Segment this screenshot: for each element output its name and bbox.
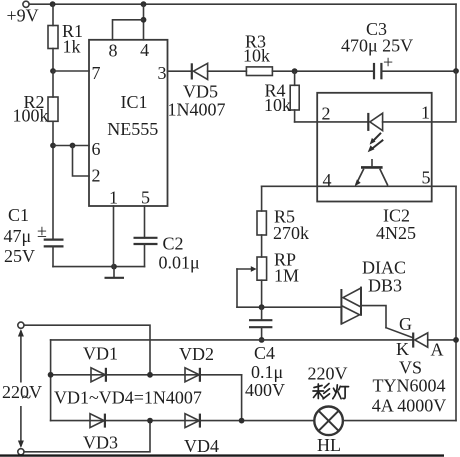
svg-text:1N4007: 1N4007: [168, 100, 226, 120]
node C4/cathode-line junction: [259, 337, 265, 343]
wire pin 5 lead: [144, 206, 146, 238]
wire C1 to ground node: [53, 266, 145, 268]
svg-text:A: A: [431, 340, 444, 360]
wire pin 6: [53, 145, 89, 147]
svg-text:3: 3: [158, 63, 167, 83]
node pin6/pin2 junction: [70, 143, 76, 149]
label deng (灯) hand-drawn: [333, 385, 349, 399]
node rail/pin4 junction: [141, 1, 147, 7]
ground: [113, 267, 115, 278]
svg-text:1k: 1k: [63, 37, 81, 57]
node pin8 bracket junction: [141, 17, 147, 23]
wire lamp to right rail: [343, 420, 456, 422]
wire bridge top row: [51, 374, 242, 376]
wire pin8 bracket: [113, 20, 144, 40]
svg-text:G: G: [399, 314, 412, 334]
svg-text:+: +: [383, 52, 393, 72]
svg-text:5: 5: [422, 168, 431, 188]
svg-text:VD3: VD3: [83, 433, 118, 453]
wire R4 to IC2 pin 2: [295, 121, 318, 123]
wire right rail upper segment: [455, 4, 457, 71]
label 220V source: [2, 383, 43, 407]
svg-text:IC1: IC1: [121, 92, 148, 112]
transistor emitter with arrow: [356, 169, 364, 185]
svg-text:1: 1: [109, 188, 118, 208]
svg-text:10k: 10k: [264, 95, 291, 115]
svg-text:4N25: 4N25: [376, 223, 416, 243]
svg-text:K: K: [396, 339, 409, 359]
resistor R2: [52, 71, 54, 97]
node AC/top row junction: [147, 372, 153, 378]
svg-text:0.1μ: 0.1μ: [251, 362, 283, 382]
node C3/rail junction: [453, 68, 459, 74]
LED light arrow 2: [371, 140, 383, 150]
svg-text:VD5: VD5: [183, 82, 218, 102]
capacitor C1: [44, 239, 64, 241]
svg-text:6: 6: [92, 139, 101, 159]
svg-text:DIAC: DIAC: [362, 258, 406, 278]
wire thyristor cathode line: [51, 339, 414, 341]
svg-text:VD1~VD4=1N4007: VD1~VD4=1N4007: [54, 388, 202, 408]
capacitor C2: [134, 237, 158, 239]
wire C3 to right rail: [381, 70, 456, 72]
svg-text:2: 2: [322, 104, 331, 124]
diac DB3: [340, 289, 342, 324]
op-amp optocoupler IC2 4N25 box: [317, 93, 432, 202]
resistor R4: [294, 71, 296, 85]
svg-text:~: ~: [22, 387, 32, 407]
terminal AC bottom: [18, 449, 24, 455]
svg-text:47μ: 47μ: [4, 226, 32, 246]
wire R3 to C3: [272, 70, 374, 72]
svg-text:0.01μ: 0.01μ: [159, 253, 200, 273]
node R3/R4/C3 junction: [292, 68, 298, 74]
svg-text:8: 8: [109, 41, 118, 61]
svg-text:C1: C1: [8, 205, 29, 225]
svg-text:470μ 25V: 470μ 25V: [341, 36, 413, 56]
svg-text:+9V: +9V: [7, 6, 39, 26]
svg-text:VD1: VD1: [83, 344, 118, 364]
wire bridge right arm: [241, 375, 243, 421]
transistor base stub: [371, 160, 373, 166]
svg-text:270k: 270k: [273, 223, 309, 243]
wire pin 1 lead: [113, 206, 115, 267]
svg-text:2: 2: [92, 166, 101, 186]
svg-text:220V: 220V: [308, 364, 348, 384]
svg-text:1: 1: [421, 103, 430, 123]
node RP/C4 junction: [259, 304, 265, 310]
transistor collector: [380, 169, 388, 186]
resistor R3: [246, 67, 272, 76]
wire pin1 LED to rail: [383, 71, 456, 122]
wire pin 3 output: [168, 70, 192, 72]
diode VD3: [90, 414, 104, 428]
lamp HL: [314, 407, 343, 436]
svg-text:±: ±: [37, 221, 47, 241]
node R2/C1/pin6 junction: [50, 143, 56, 149]
wire pin 2: [73, 146, 90, 177]
node anode/rail junction: [453, 337, 459, 343]
wire pin4 to +9V rail: [143, 4, 145, 40]
capacitor C3: [373, 63, 375, 79]
wire VD5 to R3: [208, 70, 247, 72]
diode VD5 1N4007: [191, 63, 193, 79]
node R1/R2/pin7 junction: [50, 68, 56, 74]
diode LED inside IC2: [367, 113, 369, 131]
resistor R5: [261, 186, 263, 211]
svg-text:VD4: VD4: [184, 436, 219, 456]
svg-text:4: 4: [323, 170, 332, 190]
svg-text:5: 5: [141, 188, 150, 208]
svg-text:TYN6004: TYN6004: [373, 376, 446, 396]
node AC/bottom row junction: [147, 418, 153, 424]
svg-text:VS: VS: [399, 358, 422, 378]
svg-text:4A 4000V: 4A 4000V: [372, 396, 447, 416]
wire right rail lower segment: [455, 186, 457, 420]
svg-text:DB3: DB3: [368, 276, 402, 296]
node left arm/top row junction: [48, 372, 54, 378]
wire bridge bottom row: [51, 420, 315, 422]
wire 220V source arrow: [20, 332, 22, 446]
node ground junction: [111, 264, 117, 270]
diode VD2: [185, 368, 199, 382]
node +9V/R1 junction: [50, 1, 56, 7]
label cai (彩) hand-drawn: [313, 384, 330, 399]
capacitor C4: [261, 307, 263, 320]
wire +9V top rail: [29, 3, 456, 5]
wire AC top to bridge: [24, 325, 150, 375]
svg-text:400V: 400V: [245, 380, 285, 400]
svg-text:NE555: NE555: [107, 119, 158, 139]
svg-text:C4: C4: [254, 343, 275, 363]
terminal +9V input: [23, 1, 29, 7]
wire pin 7: [53, 70, 89, 72]
potentiometer RP: [257, 257, 267, 280]
svg-text:VD2: VD2: [179, 344, 214, 364]
svg-text:4: 4: [140, 40, 149, 60]
wire bridge left arm: [50, 340, 52, 421]
node right arm/bottom row junction: [239, 418, 245, 424]
svg-text:25V: 25V: [4, 246, 35, 266]
wire DIAC to gate: [361, 306, 386, 328]
diode VD1: [91, 368, 105, 382]
svg-text:C2: C2: [163, 234, 184, 254]
resistor R1: [52, 4, 54, 25]
svg-text:100k: 100k: [13, 106, 49, 126]
wire pin2 to LED: [317, 121, 368, 123]
wire RP wiper / C4 / DIAC line: [237, 306, 341, 308]
svg-text:HL: HL: [317, 435, 341, 455]
op-amp timer IC1 NE555 box: [89, 40, 168, 206]
LED light arrow 1: [372, 133, 381, 142]
terminal AC top: [18, 322, 24, 328]
svg-text:1M: 1M: [274, 266, 299, 286]
transistor phototransistor base bar: [361, 166, 383, 169]
wire AC bottom to bridge: [24, 421, 150, 452]
scan edge bar bottom: [0, 454, 444, 456]
svg-text:10k: 10k: [243, 46, 270, 66]
svg-text:7: 7: [92, 63, 101, 83]
wire pins 4-5 emitter/collector line: [262, 185, 456, 187]
diode VD4: [185, 414, 199, 428]
thyristor VS TYN6004: [412, 333, 414, 348]
